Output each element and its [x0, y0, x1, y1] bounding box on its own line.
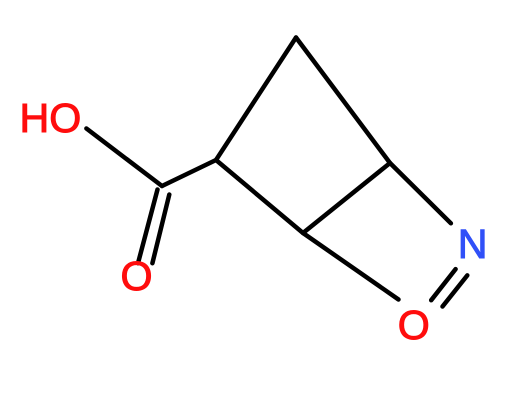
svg-text:O: O [121, 253, 153, 299]
svg-text:HO: HO [20, 95, 82, 141]
bond C3-N single bond [390, 163, 451, 223]
svg-text:N: N [458, 221, 488, 267]
bond ring C4-C7 apex, left leg [216, 38, 296, 161]
bond C=O carbonyl double, line 1 [138, 190, 158, 264]
bond C carboxyl to ring C4 [162, 160, 216, 186]
bond N=O double, line 2 [443, 275, 468, 306]
bond ring C7 apex-C3, right leg [296, 38, 390, 164]
bond C5-O ring single bond [303, 233, 399, 300]
svg-text:O: O [398, 302, 430, 348]
bond C=O carbonyl double, line 2 [152, 195, 169, 264]
bond N=O double, line 1 [431, 269, 455, 300]
bond ring C4-C5 [216, 160, 303, 233]
bond O(H)-C carboxyl single bond [86, 129, 162, 187]
bond ring C3-C5 [303, 163, 390, 233]
